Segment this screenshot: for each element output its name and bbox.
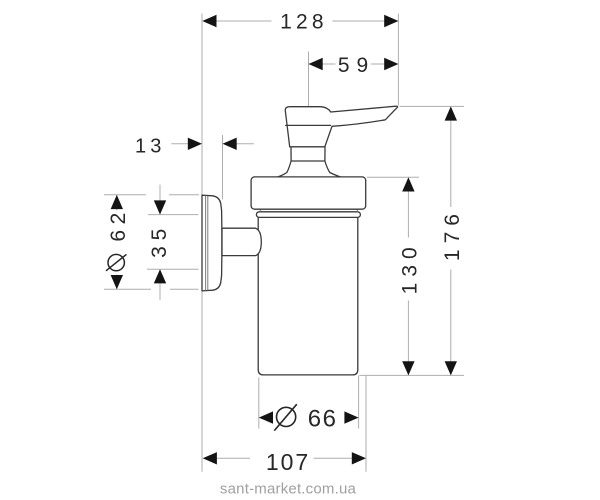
wire: dimension line 176 [400,106,465,361]
node: arrow 35 bottom [154,269,166,283]
node: arrow 128 right [384,15,398,27]
svg-text:66: 66 [308,405,338,432]
wire: dimension line 128 [216,14,399,106]
node: arrow 59 right [384,58,398,70]
value label 176 (rotated) [441,208,464,261]
svg-text:176: 176 [441,208,464,261]
node: arrow 130 bottom [402,361,414,375]
node: arrow 13 right [223,138,237,150]
svg-text:59: 59 [338,54,375,77]
svg-text:13: 13 [135,136,166,158]
wire: dimension line 107 [216,375,366,471]
pump neck [278,147,341,177]
wire: dimension line 130 [360,177,465,375]
wire: dimension line 35 [147,185,199,300]
svg-text:35: 35 [148,223,171,258]
svg-text:107: 107 [266,449,310,475]
node: diameter symbol for 62 [106,254,126,270]
node: arrow 59 left [309,58,323,70]
node: diameter symbol for 66 [274,404,297,430]
svg-text:62: 62 [107,207,130,241]
svg-text:130: 130 [399,241,422,294]
node: arrow 176 bottom [445,361,457,375]
wire: dimension line 62 [104,195,199,290]
bracket stem [222,228,261,255]
svg-text:sant-market.com.ua: sant-market.com.ua [220,481,357,498]
value label 128 [280,11,328,34]
holder ring rim bulge [256,209,360,217]
wire: dimension line 66 [259,375,359,428]
svg-text:128: 128 [280,11,328,34]
value label 62 (rotated) [107,207,130,241]
node: arrow 66 left [259,411,273,423]
node: arrow 130 top [402,177,414,191]
holder flange [251,177,366,209]
node: arrow 62 top [111,195,123,209]
wire: dimension line 13 [171,135,254,200]
wire: wall / left extension line [201,14,203,472]
value label 59 [338,54,375,77]
wire: dimension line 59 [309,52,386,107]
node: arrow 13 left [188,138,202,150]
escutcheon wall plate [202,195,222,291]
node: arrow 107 left [203,452,217,464]
node: arrow 176 top [445,106,457,120]
node: arrow 62 bottom [111,275,123,289]
value label 66 [308,405,338,432]
watermark [220,481,357,498]
glass tumbler body [258,216,358,375]
value label 35 (rotated) [148,223,171,258]
node: arrow 107 right [352,452,366,464]
pump cap head with spout handle [285,106,397,147]
value label 130 (rotated) [399,241,422,294]
value label 13 [135,136,166,158]
node: arrow 66 right [344,411,358,423]
node: arrow 128 left [202,15,216,27]
value label 107 [266,449,310,475]
node: arrow 35 top [154,200,166,214]
